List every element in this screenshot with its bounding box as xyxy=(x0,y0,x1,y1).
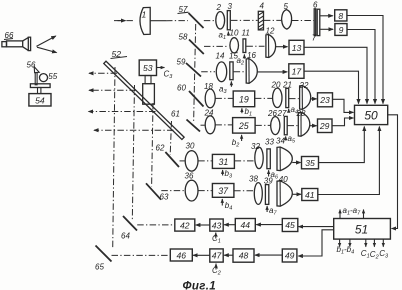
svg-text:4: 4 xyxy=(260,2,265,11)
row4 wire 18 to box 19 xyxy=(215,97,232,99)
svg-text:41: 41 xyxy=(305,190,315,200)
svg-text:55: 55 xyxy=(48,72,57,81)
box 35 xyxy=(302,157,319,169)
row4 wire 19 to lens 20 xyxy=(255,97,272,99)
wire cone 16 to box 17 xyxy=(258,71,288,73)
wire 29 to 50 xyxy=(332,118,353,126)
box 44 xyxy=(235,219,255,232)
box 50 xyxy=(355,105,388,124)
vertical beam to mirror 64 xyxy=(132,85,134,221)
lens 36 xyxy=(185,172,199,202)
wire cone 22 to box 23 xyxy=(311,98,317,100)
lens 18 xyxy=(204,82,215,108)
box 8 xyxy=(335,10,347,21)
row1 wire 5 to detector xyxy=(292,20,314,22)
box 9 xyxy=(335,24,347,36)
svg-text:49: 49 xyxy=(285,251,295,261)
row4 wire 21 to cone 22 xyxy=(289,98,299,100)
outputs b1-b4 of 51 xyxy=(337,239,355,255)
wire 23 to 50 xyxy=(333,99,354,112)
svg-text:39: 39 xyxy=(264,177,273,186)
sensor ball 55 xyxy=(40,72,58,82)
signal b1 xyxy=(242,107,252,118)
svg-text:51: 51 xyxy=(355,223,368,237)
wire 51 to 49 xyxy=(298,230,333,256)
vertical beam to mirror 65 xyxy=(113,67,115,249)
row1 wire 4 to 5 xyxy=(264,19,281,21)
lens 2 xyxy=(216,3,225,29)
output C2 of 51 xyxy=(370,239,379,260)
svg-text:23: 23 xyxy=(319,95,330,105)
row7 wire 63 to lens 36 xyxy=(161,190,185,192)
mirror 62 xyxy=(156,144,180,168)
svg-text:28: 28 xyxy=(296,109,306,118)
plate 11 xyxy=(242,29,250,53)
row5 wire 25 to lens 26 xyxy=(255,124,270,126)
mirror 58 xyxy=(179,33,204,55)
svg-text:48: 48 xyxy=(239,251,249,261)
box 23 xyxy=(318,93,333,107)
svg-text:7: 7 xyxy=(312,34,317,43)
box 51 xyxy=(334,219,391,240)
svg-text:47: 47 xyxy=(212,251,223,261)
svg-text:37: 37 xyxy=(218,186,229,196)
wire 49 to 48 xyxy=(255,254,282,256)
light source icon 66 xyxy=(2,31,31,51)
box 42 xyxy=(175,219,195,231)
plate 15 xyxy=(229,52,238,80)
svg-text:17: 17 xyxy=(292,67,303,77)
svg-text:20: 20 xyxy=(271,81,281,90)
plate 21 xyxy=(282,81,292,108)
box 47 xyxy=(210,249,223,262)
vertical beam to mirror 63 xyxy=(152,103,153,187)
lens 24 xyxy=(204,109,216,134)
wire lens1 to mirror 57 xyxy=(150,20,166,22)
control input C3 of 53 xyxy=(157,68,174,81)
plate 3 xyxy=(227,2,232,30)
row9 wire 65 to box 46 xyxy=(112,254,171,256)
stem xyxy=(38,88,41,94)
mirror 59 xyxy=(177,58,202,77)
filter 4 hatched xyxy=(258,2,264,30)
svg-text:26: 26 xyxy=(267,109,277,118)
row5 wire 27 to cone 28 xyxy=(288,125,298,127)
row6 wire 30 to box 31 xyxy=(198,160,212,162)
svg-text:29: 29 xyxy=(319,121,330,131)
box 17 xyxy=(289,64,304,79)
row8 wire 64 to box 42 xyxy=(137,224,174,226)
modulator 53 on mirror 52 xyxy=(139,60,156,104)
wire cone 12 to box 13 xyxy=(276,46,288,48)
wire 17 to 50 xyxy=(304,71,359,103)
box 29 xyxy=(318,119,333,133)
wire 50 to 51 xyxy=(388,115,398,229)
svg-text:43: 43 xyxy=(212,220,222,230)
signal b2 xyxy=(232,135,242,149)
mirror 64 xyxy=(121,216,137,241)
row2 wire 11 to cone 12 xyxy=(246,45,264,47)
output beam arrow row B xyxy=(89,89,136,91)
modulator box 25 xyxy=(233,118,256,134)
photodetector 6 xyxy=(313,0,318,35)
svg-text:60: 60 xyxy=(177,84,186,93)
wire cone 40 to box 41 xyxy=(292,193,301,195)
photodetector cone 12 xyxy=(266,27,276,58)
svg-text:64: 64 xyxy=(121,232,130,241)
wire 48 to 47 xyxy=(224,254,233,256)
svg-text:6: 6 xyxy=(313,0,318,9)
vertical beam 57 to 61 xyxy=(194,24,196,123)
svg-text:9: 9 xyxy=(339,25,344,35)
svg-text:21: 21 xyxy=(282,81,292,90)
svg-text:35: 35 xyxy=(305,158,315,168)
input beam arrow into lens 1 xyxy=(114,20,134,22)
box 46 xyxy=(170,249,192,261)
photodetector 7 xyxy=(312,9,320,42)
svg-text:Фиг.1: Фиг.1 xyxy=(183,280,217,290)
svg-text:1: 1 xyxy=(142,10,147,20)
svg-text:16: 16 xyxy=(247,51,256,60)
photodetector cone 28 xyxy=(296,109,310,136)
beam arrow from 66 lower xyxy=(37,47,57,52)
svg-text:34: 34 xyxy=(276,137,285,146)
wire detector to 8 xyxy=(320,15,333,17)
svg-text:58: 58 xyxy=(179,33,188,42)
signal a6 xyxy=(269,170,279,181)
svg-text:46: 46 xyxy=(177,250,187,260)
row1 wire 3 to 4 xyxy=(231,19,258,21)
lens 38 xyxy=(249,175,262,205)
mirror 60 xyxy=(177,84,204,107)
svg-text:2: 2 xyxy=(216,3,222,12)
mirror 57 xyxy=(178,5,204,28)
row7 wire 37 to lens 38 xyxy=(234,190,254,192)
lens 20 xyxy=(271,81,282,108)
wire detector to 9 xyxy=(320,28,333,30)
svg-text:61: 61 xyxy=(171,110,180,119)
signal C1 xyxy=(212,233,221,245)
modulator box 31 xyxy=(212,154,234,168)
svg-text:38: 38 xyxy=(249,175,258,184)
svg-text:15: 15 xyxy=(229,52,238,61)
svg-text:45: 45 xyxy=(285,220,295,230)
row1 wire 57 to lens 2 xyxy=(204,20,216,22)
lens 14 xyxy=(216,52,227,82)
svg-text:18: 18 xyxy=(204,82,213,91)
lens 26 xyxy=(267,109,280,135)
output beam arrow row C xyxy=(89,111,156,113)
wire 35 to 50 xyxy=(319,127,365,163)
box 49 xyxy=(282,249,297,262)
row6 wire 31 to lens 32 xyxy=(235,160,255,162)
svg-text:12: 12 xyxy=(266,27,275,36)
signal a2 xyxy=(237,54,245,66)
mirror 63 xyxy=(146,183,169,201)
signal a1 xyxy=(219,31,229,42)
svg-text:11: 11 xyxy=(242,29,250,38)
row2 wire 58 to lens 10 xyxy=(204,45,229,47)
box 45 xyxy=(282,219,298,232)
row6 wire 62 to lens 30 xyxy=(180,160,185,162)
svg-text:13: 13 xyxy=(292,43,302,53)
wire 51 to 45 xyxy=(299,226,334,228)
output beam arrow row A xyxy=(89,72,117,74)
wire 41 to 50 xyxy=(318,127,380,195)
wire 47 to 46 xyxy=(193,254,210,256)
box 48 xyxy=(233,249,254,262)
svg-text:42: 42 xyxy=(180,220,190,230)
svg-text:33: 33 xyxy=(265,138,274,147)
svg-text:14: 14 xyxy=(216,52,225,61)
lens 30 xyxy=(185,142,198,172)
modulator box 37 xyxy=(212,184,234,198)
row3 wire 15 to cone 16 xyxy=(234,71,245,73)
svg-text:54: 54 xyxy=(35,95,45,105)
plate 39 xyxy=(264,177,273,205)
wire cone 34 to box 35 xyxy=(292,162,300,164)
output C3 of 51 xyxy=(379,239,389,259)
lens 5 xyxy=(282,2,292,29)
signal C2 xyxy=(212,264,221,277)
vertical beam to mirror 62 xyxy=(170,121,171,155)
wire 44 to 43 xyxy=(224,224,235,226)
svg-text:27: 27 xyxy=(277,109,287,118)
svg-text:63: 63 xyxy=(160,193,169,202)
signal a5 xyxy=(286,134,296,145)
plate 27 xyxy=(277,109,288,135)
wire 8 to 50 xyxy=(347,16,383,104)
output a1-a7 of 51 xyxy=(340,206,364,218)
wire 43 to 42 xyxy=(196,224,210,226)
wire 45 to 44 xyxy=(256,224,282,226)
row5 wire 61 to lens 24 xyxy=(201,124,205,126)
box 43 xyxy=(210,219,223,231)
svg-text:8: 8 xyxy=(338,11,343,21)
row5 wire 24 to box 25 xyxy=(215,124,232,126)
svg-text:30: 30 xyxy=(186,142,195,151)
plate 33 xyxy=(265,138,274,169)
box 13 xyxy=(289,40,304,54)
signal a4 xyxy=(289,105,298,116)
signal b3 xyxy=(223,169,233,180)
mirror 52 (long beamsplitter bar) xyxy=(104,49,184,139)
modulator box 19 xyxy=(233,91,255,107)
row7 wire 36 to box 37 xyxy=(198,190,212,192)
wire 13 to 50 xyxy=(304,47,367,103)
wire cone 28 to box 29 xyxy=(310,125,317,127)
signal a3 xyxy=(219,81,231,95)
svg-text:25: 25 xyxy=(238,121,249,131)
wire 9 to 50 xyxy=(347,30,375,104)
photodetector cone 16 xyxy=(246,51,257,83)
svg-text:53: 53 xyxy=(143,63,153,73)
signal b4 xyxy=(222,199,232,212)
mirror 65 xyxy=(95,246,112,272)
box 54 xyxy=(29,94,51,106)
svg-text:22: 22 xyxy=(299,81,309,90)
row3 wire 59 to lens 14 xyxy=(201,71,215,73)
platform xyxy=(30,84,50,88)
mirror 61 xyxy=(171,110,200,132)
svg-text:44: 44 xyxy=(241,220,251,230)
svg-text:3: 3 xyxy=(228,2,233,11)
output beam arrow row D xyxy=(94,129,174,131)
svg-text:50: 50 xyxy=(364,109,378,123)
photodetector cone 22 xyxy=(299,81,311,109)
svg-text:36: 36 xyxy=(185,172,194,181)
box 41 xyxy=(302,189,318,201)
detector apparatus 56 flag xyxy=(27,61,40,73)
svg-text:31: 31 xyxy=(219,157,229,167)
svg-text:40: 40 xyxy=(279,175,288,184)
svg-text:10: 10 xyxy=(230,29,239,38)
svg-text:5: 5 xyxy=(284,2,289,11)
lens 1 xyxy=(140,7,150,34)
svg-text:32: 32 xyxy=(251,142,260,151)
svg-text:59: 59 xyxy=(177,58,186,67)
svg-text:19: 19 xyxy=(239,95,249,105)
output C1 of 51 xyxy=(361,239,370,259)
lens 32 xyxy=(251,142,263,169)
signal a7 xyxy=(267,206,277,217)
lens 10 xyxy=(230,29,239,53)
svg-text:24: 24 xyxy=(204,109,214,118)
photodetector cone 40 xyxy=(277,175,292,206)
svg-text:62: 62 xyxy=(156,144,165,153)
beam arrow from 66 upper xyxy=(36,36,55,46)
photodetector cone 34 xyxy=(276,137,292,171)
pole of apparatus xyxy=(35,73,37,85)
svg-text:65: 65 xyxy=(95,263,104,272)
